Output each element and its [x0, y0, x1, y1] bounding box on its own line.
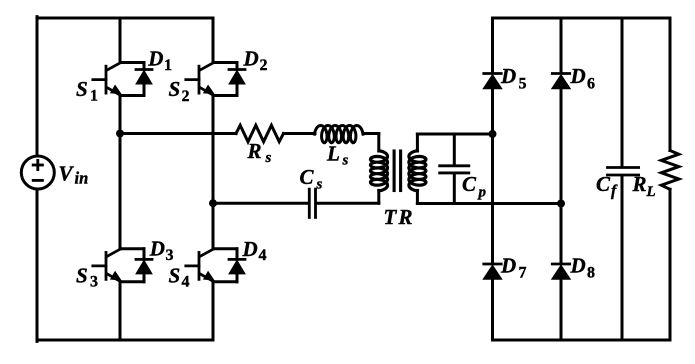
svg-text:C: C [462, 172, 477, 196]
svg-text:D: D [242, 237, 258, 261]
svg-text:S: S [169, 77, 181, 101]
svg-text:S: S [76, 263, 88, 287]
svg-text:in: in [75, 169, 89, 188]
svg-text:S: S [76, 77, 88, 101]
svg-text:2: 2 [260, 57, 268, 74]
svg-text:D: D [500, 253, 516, 277]
svg-text:3: 3 [90, 274, 98, 291]
svg-text:D: D [500, 64, 516, 88]
svg-text:D: D [149, 237, 165, 261]
svg-text:C: C [596, 172, 611, 196]
svg-text:7: 7 [519, 265, 527, 282]
svg-text:8: 8 [587, 265, 595, 282]
svg-text:6: 6 [587, 75, 595, 92]
svg-text:R: R [247, 139, 262, 163]
svg-text:S: S [169, 263, 181, 287]
svg-text:1: 1 [164, 57, 172, 74]
svg-text:2: 2 [182, 88, 190, 105]
svg-text:C: C [300, 165, 315, 189]
svg-text:D: D [147, 46, 163, 70]
svg-text:s: s [342, 152, 349, 168]
svg-text:5: 5 [519, 75, 527, 92]
svg-text:D: D [243, 46, 259, 70]
svg-text:4: 4 [182, 274, 190, 291]
svg-text:D: D [570, 253, 586, 277]
svg-text:R: R [632, 172, 647, 196]
svg-text:TR: TR [384, 205, 415, 229]
svg-text:4: 4 [259, 247, 267, 264]
svg-text:p: p [477, 185, 487, 201]
svg-text:s: s [316, 176, 323, 192]
svg-text:1: 1 [90, 88, 98, 105]
svg-text:s: s [265, 150, 272, 166]
svg-text:D: D [570, 64, 586, 88]
svg-text:L: L [326, 142, 340, 166]
svg-text:V: V [59, 161, 75, 185]
svg-text:L: L [646, 184, 656, 200]
svg-text:3: 3 [166, 247, 174, 264]
